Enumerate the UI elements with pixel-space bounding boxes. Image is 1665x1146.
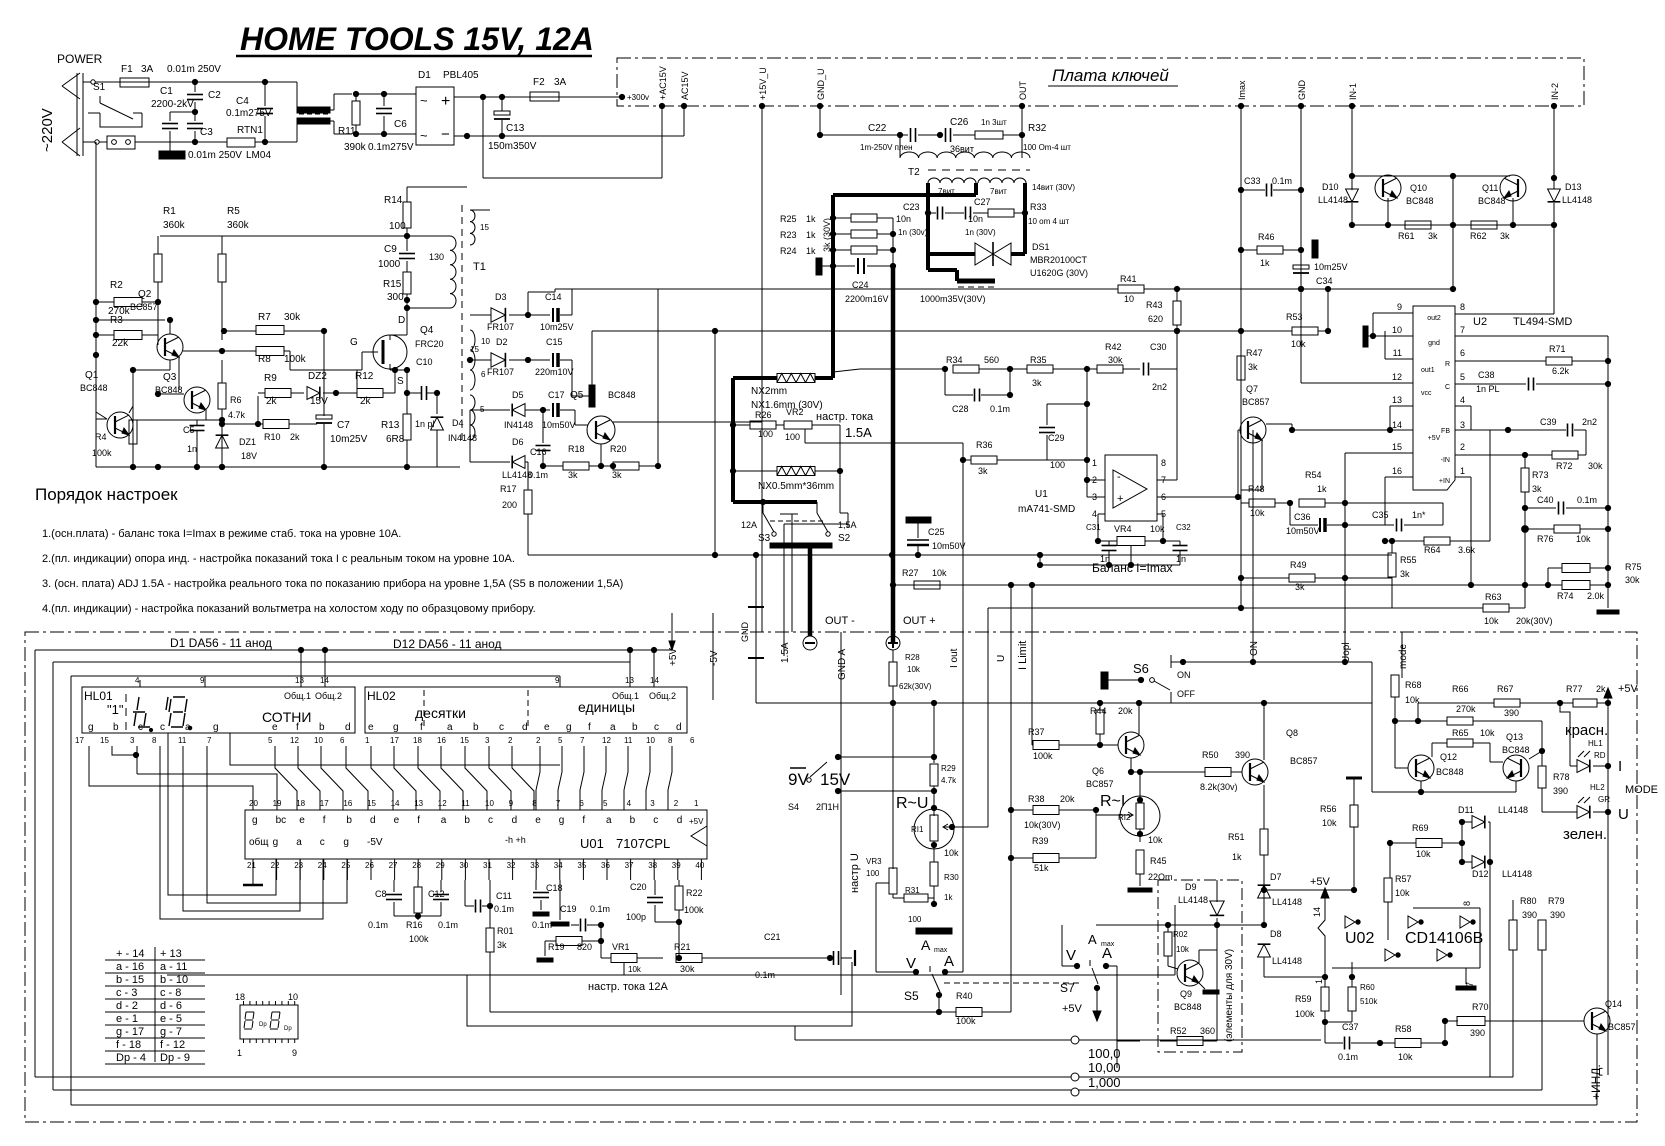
- svg-text:5: 5: [268, 736, 273, 745]
- svg-text:A: A: [1088, 932, 1097, 947]
- wire left rail x96: [95, 142, 97, 467]
- svg-text:1k: 1k: [806, 230, 816, 240]
- svg-text:HL01: HL01: [84, 689, 113, 703]
- svg-text:C22: C22: [868, 123, 887, 134]
- svg-text:BC848: BC848: [1406, 196, 1434, 206]
- svg-text:Общ.1: Общ.1: [284, 691, 311, 701]
- svg-text:10,00: 10,00: [1088, 1060, 1121, 1075]
- svg-text:R36: R36: [976, 440, 993, 450]
- svg-text:7: 7: [1460, 325, 1465, 335]
- svg-text:IN4148: IN4148: [504, 420, 533, 430]
- svg-text:10k: 10k: [944, 848, 959, 858]
- svg-text:mode: mode: [1398, 644, 1409, 669]
- svg-text:10m25V: 10m25V: [540, 322, 574, 332]
- svg-text:0.1m: 0.1m: [494, 904, 514, 914]
- svg-text:f - 18: f - 18: [116, 1039, 141, 1051]
- svg-text:R16: R16: [406, 920, 423, 930]
- svg-text:22: 22: [271, 861, 280, 870]
- svg-text:b: b: [346, 815, 352, 826]
- svg-text:100p: 100p: [626, 912, 646, 922]
- svg-text:Q9: Q9: [1180, 989, 1192, 999]
- svg-text:31: 31: [483, 861, 492, 870]
- svg-text:b - 10: b - 10: [160, 974, 188, 986]
- svg-text:f: f: [323, 815, 326, 826]
- svg-text:Dp: Dp: [259, 1022, 267, 1028]
- svg-text:10k: 10k: [1150, 524, 1165, 534]
- svg-text:IN-2: IN-2: [1550, 83, 1560, 100]
- svg-text:+5V: +5V: [668, 648, 679, 666]
- svg-text:C23: C23: [903, 202, 920, 212]
- pin Imax: [1238, 103, 1243, 108]
- wire mains bottom: [83, 141, 107, 143]
- indicator inner board outline: [167, 974, 1175, 976]
- svg-text:OUT +: OUT +: [903, 615, 936, 627]
- svg-text:S1: S1: [93, 82, 106, 93]
- svg-text:13: 13: [1392, 395, 1402, 405]
- svg-text:−: −: [441, 126, 450, 143]
- svg-text:12A: 12A: [741, 520, 757, 530]
- svg-text:C31: C31: [1086, 523, 1101, 532]
- svg-text:10k: 10k: [1480, 728, 1495, 738]
- svg-text:29: 29: [436, 861, 445, 870]
- svg-text:8: 8: [1460, 302, 1465, 312]
- svg-text:6: 6: [690, 736, 695, 745]
- svg-text:f: f: [420, 722, 423, 733]
- svg-text:0.01m 250V: 0.01m 250V: [188, 150, 242, 161]
- svg-text:U: U: [1618, 806, 1629, 823]
- svg-text:R26: R26: [755, 410, 772, 420]
- svg-text:C4: C4: [236, 96, 249, 107]
- svg-text:g - 7: g - 7: [160, 1026, 182, 1038]
- svg-text:620: 620: [1148, 314, 1163, 324]
- svg-text:3: 3: [1460, 420, 1465, 430]
- svg-text:R37: R37: [1028, 727, 1045, 737]
- wires HL01 pins 8 11 7 loops below U01: [160, 746, 323, 919]
- svg-text:0.1m: 0.1m: [532, 920, 552, 930]
- wire +15V_U riser: [761, 106, 763, 632]
- wire mains top: [83, 81, 120, 83]
- svg-text:R24: R24: [780, 246, 797, 256]
- svg-text:3.6k: 3.6k: [1458, 545, 1476, 555]
- U2 left pin stubs: [1373, 312, 1413, 314]
- thick wire shunt left leg: [731, 378, 735, 502]
- wire S7 A to bottom bus: [1106, 965, 1117, 967]
- svg-text:C6: C6: [394, 119, 407, 130]
- wire ON bracket to Uopl corner: [1171, 661, 1372, 663]
- svg-text:Общ.2: Общ.2: [649, 691, 676, 701]
- svg-text:0.01m 250V: 0.01m 250V: [167, 64, 221, 75]
- test point 100.0: [1071, 1036, 1079, 1044]
- svg-text:C11: C11: [496, 891, 512, 901]
- U2 right pin stubs: [1455, 313, 1554, 315]
- svg-text:BC857: BC857: [1290, 756, 1318, 766]
- common-mode choke: [297, 107, 330, 113]
- svg-text:d: d: [677, 815, 683, 826]
- svg-text:e: e: [299, 815, 305, 826]
- svg-text:1n 3шт: 1n 3шт: [981, 118, 1007, 127]
- svg-text:LM04: LM04: [246, 150, 271, 161]
- wire HL01 pins 15+3 to U01 pin19: [112, 746, 136, 755]
- svg-text:F2: F2: [533, 77, 545, 88]
- svg-text:C20: C20: [630, 882, 647, 892]
- svg-text:Q6: Q6: [1092, 766, 1104, 776]
- wire D9 box out: [1117, 1040, 1140, 1042]
- svg-text:C32: C32: [1176, 523, 1191, 532]
- svg-text:R55: R55: [1400, 555, 1417, 565]
- svg-text:out1: out1: [1421, 367, 1435, 374]
- indicator board dash-dot box: [25, 632, 1637, 1122]
- svg-text:30k: 30k: [284, 312, 301, 323]
- svg-text:c: c: [499, 722, 504, 733]
- wire D11 D12 left leg: [1461, 822, 1463, 862]
- svg-text:5: 5: [1460, 372, 1465, 382]
- svg-text:R41: R41: [1120, 274, 1137, 284]
- svg-text:27: 27: [389, 861, 398, 870]
- svg-text:8: 8: [1161, 458, 1166, 468]
- svg-text:e: e: [394, 815, 400, 826]
- wire OUT riser: [1021, 106, 1023, 158]
- svg-text:Dp: Dp: [284, 1026, 292, 1032]
- svg-text:62k(30V): 62k(30V): [899, 682, 932, 691]
- wire x893 thick bus down to OUT+: [892, 218, 894, 266]
- svg-text:360k: 360k: [227, 220, 250, 231]
- svg-text:C33: C33: [1244, 176, 1261, 186]
- wire R20 right up: [657, 289, 659, 466]
- svg-text:FB: FB: [1441, 428, 1450, 435]
- svg-text:4: 4: [1460, 395, 1465, 405]
- svg-text:f - 12: f - 12: [160, 1039, 185, 1051]
- svg-text:100k: 100k: [409, 934, 429, 944]
- svg-text:6: 6: [340, 736, 345, 745]
- svg-text:+5V: +5V: [1618, 683, 1639, 695]
- svg-text:R18: R18: [568, 444, 585, 454]
- wire driver bottom line: [1352, 224, 1554, 226]
- svg-text:510k: 510k: [1360, 997, 1378, 1006]
- svg-text:560: 560: [984, 355, 999, 365]
- svg-text:100k: 100k: [92, 448, 112, 458]
- connector under S1: [107, 136, 135, 149]
- svg-text:настр. тока: настр. тока: [816, 411, 874, 423]
- svg-text:c: c: [488, 815, 493, 826]
- svg-text:~220V: ~220V: [39, 108, 56, 152]
- svg-text:HL02: HL02: [367, 689, 396, 703]
- svg-text:16: 16: [343, 799, 352, 808]
- svg-text:2k: 2k: [290, 432, 300, 442]
- svg-text:T1: T1: [473, 261, 486, 273]
- svg-text:0.1m: 0.1m: [1338, 1052, 1358, 1062]
- svg-text:38: 38: [648, 861, 657, 870]
- svg-text:10k: 10k: [1322, 818, 1337, 828]
- svg-text:зелен.: зелен.: [1563, 826, 1607, 843]
- svg-text:Dp - 4: Dp - 4: [116, 1052, 146, 1064]
- svg-text:BC848: BC848: [1502, 745, 1530, 755]
- svg-text:3k: 3k: [612, 470, 622, 480]
- svg-text:c: c: [138, 722, 143, 733]
- svg-text:Q14: Q14: [1605, 999, 1622, 1009]
- svg-text:14: 14: [1312, 907, 1322, 917]
- svg-text:5: 5: [558, 736, 563, 745]
- svg-text:10m50V: 10m50V: [932, 541, 966, 551]
- svg-text:10k: 10k: [1250, 508, 1265, 518]
- wire F1 to C2 node: [149, 81, 297, 83]
- wire I Limit to R37: [1032, 744, 1033, 746]
- svg-text:общ: общ: [249, 836, 269, 848]
- svg-text:34: 34: [554, 861, 563, 870]
- wire base Q1: [96, 412, 107, 419]
- svg-text:R12: R12: [355, 371, 374, 382]
- svg-text:LL4148: LL4148: [1562, 195, 1592, 205]
- svg-text:a - 16: a - 16: [116, 961, 144, 973]
- svg-text:R29: R29: [941, 764, 956, 773]
- svg-text:e: e: [368, 722, 374, 733]
- svg-text:a: a: [185, 722, 191, 733]
- R68 leads: [1394, 697, 1396, 721]
- svg-text:R61: R61: [1398, 231, 1415, 241]
- svg-text:5: 5: [603, 799, 608, 808]
- svg-text:BC848: BC848: [80, 383, 108, 393]
- potentiometer RI2: [1120, 796, 1160, 836]
- svg-text:+300v: +300v: [627, 93, 649, 102]
- svg-text:R77: R77: [1566, 684, 1583, 694]
- svg-text:20k(30V): 20k(30V): [1516, 616, 1553, 626]
- svg-text:D6: D6: [512, 437, 524, 447]
- wire D1 bottom rail: [454, 135, 684, 137]
- svg-text:S4: S4: [788, 802, 799, 812]
- svg-text:3: 3: [650, 799, 655, 808]
- wire x483 drop: [482, 97, 484, 178]
- svg-text:390: 390: [1550, 910, 1565, 920]
- svg-text:VR4: VR4: [1114, 524, 1132, 534]
- svg-text:10 om 4 шт: 10 om 4 шт: [1028, 217, 1070, 226]
- svg-text:270k: 270k: [1456, 704, 1476, 714]
- svg-text:100: 100: [389, 221, 406, 232]
- wire D3 line up: [554, 289, 556, 292]
- svg-text:R45: R45: [1150, 856, 1167, 866]
- svg-text:8: 8: [1462, 901, 1472, 906]
- svg-text:POWER: POWER: [57, 52, 103, 66]
- ground bar R56: [1346, 777, 1362, 780]
- svg-text:g: g: [343, 837, 349, 848]
- svg-text:U: U: [996, 655, 1007, 662]
- wire U1 bottom bus: [1040, 564, 1180, 566]
- svg-text:3k: 3k: [1428, 231, 1438, 241]
- svg-text:130: 130: [429, 252, 444, 262]
- svg-text:IN4148: IN4148: [448, 433, 477, 443]
- display HL02 box: [365, 687, 687, 733]
- svg-text:30k: 30k: [1588, 461, 1603, 471]
- wire S2 to 1.5A pin: [847, 513, 849, 524]
- svg-text:R46: R46: [1258, 232, 1275, 242]
- U2 pin3 FB stub: [1455, 429, 1566, 431]
- U1 pin5 wire: [1157, 513, 1163, 515]
- svg-text:f: f: [296, 722, 299, 733]
- svg-text:1k: 1k: [1260, 258, 1270, 268]
- svg-text:2200-2kV: 2200-2kV: [151, 99, 194, 110]
- svg-text:C15: C15: [546, 337, 563, 347]
- svg-text:C19: C19: [560, 904, 577, 914]
- wire S5 A contact: [945, 971, 963, 973]
- svg-text:36вит: 36вит: [950, 144, 974, 154]
- wire R77 to LEDs: [1560, 703, 1570, 766]
- svg-text:b: b: [473, 722, 479, 733]
- svg-text:C10: C10: [416, 357, 433, 367]
- svg-text:C17: C17: [548, 390, 565, 400]
- svg-text:C7: C7: [337, 420, 350, 431]
- junction dots input filter: [192, 79, 197, 84]
- wire y703 bus: [756, 702, 1372, 704]
- wire RI1 wiper to R63 net: [952, 826, 988, 828]
- svg-text:1: 1: [365, 736, 370, 745]
- svg-text:R25: R25: [780, 214, 797, 224]
- svg-text:настр U: настр U: [849, 853, 861, 893]
- svg-text:10: 10: [1392, 325, 1402, 335]
- thick vertical +out bus x833: [831, 195, 835, 378]
- svg-text:100: 100: [1050, 460, 1065, 470]
- svg-text:U2: U2: [1473, 316, 1487, 328]
- svg-text:1k: 1k: [944, 893, 953, 902]
- svg-text:2200m16V: 2200m16V: [845, 294, 889, 304]
- svg-text:LL4148: LL4148: [1272, 956, 1302, 966]
- svg-text:390k: 390k: [344, 142, 367, 153]
- wire R14 top from +15V riser: [406, 186, 408, 188]
- svg-text:21: 21: [247, 861, 256, 870]
- svg-text:1n PL: 1n PL: [1476, 384, 1500, 394]
- U1 pin7 wire: [1157, 479, 1177, 481]
- svg-text:HL2: HL2: [1590, 783, 1605, 792]
- U02 supply zigzag: [1318, 905, 1325, 948]
- wire Q5 collector right: [613, 421, 762, 423]
- svg-text:7: 7: [207, 736, 212, 745]
- svg-text:+IN: +IN: [1439, 478, 1450, 485]
- svg-text:9: 9: [555, 676, 560, 685]
- svg-text:26: 26: [365, 861, 374, 870]
- svg-text:b: b: [632, 722, 638, 733]
- svg-text:+5V: +5V: [1310, 876, 1331, 888]
- svg-text:g: g: [273, 837, 279, 848]
- svg-text:R69: R69: [1412, 823, 1429, 833]
- svg-text:30k: 30k: [1108, 355, 1123, 365]
- svg-text:0.1m: 0.1m: [368, 920, 388, 930]
- svg-text:RD: RD: [1594, 751, 1606, 760]
- svg-text:d: d: [522, 722, 528, 733]
- svg-text:1k: 1k: [1317, 484, 1327, 494]
- svg-text:1k: 1k: [806, 246, 816, 256]
- svg-text:R: R: [1445, 361, 1450, 368]
- svg-text:39: 39: [672, 861, 681, 870]
- svg-text:СОТНИ: СОТНИ: [262, 709, 311, 725]
- svg-text:HL1: HL1: [1588, 739, 1603, 748]
- ground bar under C1: [159, 151, 185, 159]
- svg-text:1,5A: 1,5A: [838, 520, 857, 530]
- svg-text:U1620G (30V): U1620G (30V): [1030, 268, 1088, 278]
- svg-text:BC857: BC857: [1608, 1022, 1636, 1032]
- wire D9 line: [1096, 924, 1264, 926]
- svg-text:R58: R58: [1395, 1024, 1412, 1034]
- svg-text:10k: 10k: [1148, 835, 1163, 845]
- junction dots oscillator: [194, 464, 199, 469]
- svg-text:GND A: GND A: [837, 649, 848, 680]
- svg-text:R67: R67: [1497, 684, 1514, 694]
- svg-text:10k: 10k: [1576, 534, 1591, 544]
- svg-text:10k: 10k: [1291, 339, 1306, 349]
- svg-text:C30: C30: [1150, 342, 1167, 352]
- fuse wire throughs: [120, 81, 149, 83]
- svg-text:10k: 10k: [1176, 945, 1190, 954]
- test point 10.00: [1071, 1073, 1079, 1081]
- svg-text:a: a: [606, 815, 612, 826]
- wire vcc riser to pin12: [1300, 331, 1302, 383]
- switch bottom thick bar: [770, 543, 832, 548]
- svg-text:12: 12: [1392, 372, 1402, 382]
- svg-text:R01: R01: [497, 926, 514, 936]
- svg-text:+ИНД.: +ИНД.: [1589, 1064, 1603, 1100]
- svg-text:15: 15: [460, 736, 469, 745]
- svg-text:1: 1: [1460, 466, 1465, 476]
- svg-text:a - 11: a - 11: [160, 961, 187, 973]
- wire y1012 R01 to S5: [489, 995, 491, 1012]
- svg-text:Общ.1: Общ.1: [612, 691, 639, 701]
- wire Q2 collector: [169, 320, 171, 334]
- wire S7 V contact: [1062, 965, 1077, 967]
- svg-text:DZ1: DZ1: [239, 437, 256, 447]
- svg-text:U02: U02: [1345, 930, 1374, 947]
- svg-text:12: 12: [438, 799, 447, 808]
- svg-text:7107CPL: 7107CPL: [616, 836, 670, 851]
- svg-text:8.2k(30v): 8.2k(30v): [1200, 782, 1238, 792]
- svg-text:Общ.2: Общ.2: [315, 691, 342, 701]
- svg-text:2n2: 2n2: [1582, 417, 1597, 427]
- svg-text:R42: R42: [1105, 342, 1122, 352]
- svg-text:R57: R57: [1395, 874, 1412, 884]
- svg-text:220m10V: 220m10V: [535, 367, 574, 377]
- svg-text:Q10: Q10: [1410, 183, 1427, 193]
- wire GND bar to y703 bus: [755, 658, 757, 703]
- svg-text:C26: C26: [950, 117, 969, 128]
- svg-text:AC15V: AC15V: [680, 71, 690, 100]
- svg-text:c - 3: c - 3: [116, 987, 137, 999]
- svg-text:R74: R74: [1557, 591, 1574, 601]
- svg-text:R02: R02: [1173, 930, 1188, 939]
- svg-text:b - 15: b - 15: [116, 974, 144, 986]
- svg-text:ON: ON: [1249, 641, 1260, 656]
- svg-text:13: 13: [295, 676, 304, 685]
- svg-text:4: 4: [627, 799, 632, 808]
- wire left rail 1: [34, 650, 36, 1077]
- pin OUT: [1019, 103, 1024, 108]
- U2 pin1 stub: [1455, 476, 1471, 478]
- svg-text:R51: R51: [1228, 832, 1245, 842]
- svg-text:T2: T2: [908, 167, 920, 178]
- svg-text:Q7: Q7: [1246, 384, 1258, 394]
- svg-text:+5V: +5V: [689, 817, 704, 826]
- wire GND stem: [755, 555, 757, 607]
- svg-text:390: 390: [1504, 708, 1519, 718]
- wire Q12 Q13 emitters: [1420, 781, 1422, 792]
- svg-text:35: 35: [577, 861, 586, 870]
- svg-text:R39: R39: [1032, 836, 1049, 846]
- svg-text:2: 2: [1460, 442, 1465, 452]
- svg-text:11: 11: [1393, 348, 1402, 358]
- T2 lower winding 7vit x2: [928, 178, 976, 183]
- svg-text:33: 33: [530, 861, 539, 870]
- svg-text:17: 17: [75, 736, 84, 745]
- svg-text:3. (осн. плата) ADJ 1.5А - нас: 3. (осн. плата) ADJ 1.5А - настройка реа…: [42, 578, 623, 590]
- svg-text:d - 2: d - 2: [116, 1000, 138, 1012]
- wire Q10Q11 collector to out line: [1452, 176, 1454, 289]
- svg-text:37: 37: [625, 861, 634, 870]
- svg-text:VR2: VR2: [786, 407, 804, 417]
- svg-text:R28: R28: [905, 653, 920, 662]
